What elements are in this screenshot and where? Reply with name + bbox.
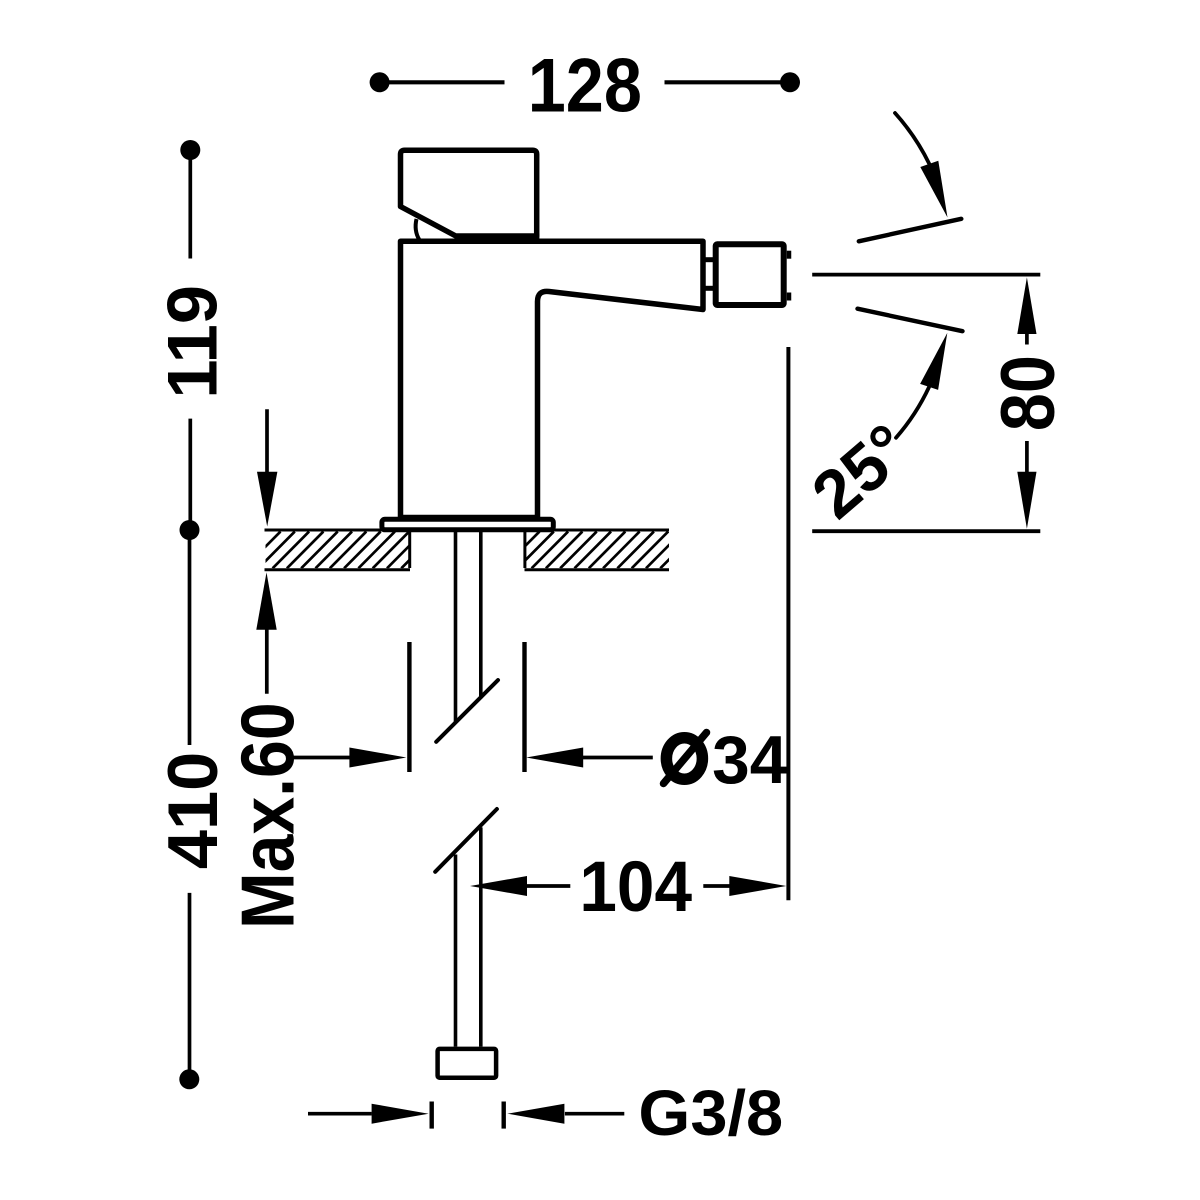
handle (401, 150, 537, 236)
aerator connector tab bottom (702, 286, 715, 291)
svg-text:119: 119 (153, 285, 232, 399)
svg-text:Max.60: Max.60 (226, 702, 310, 929)
dimension Max.60 up arrow (256, 572, 276, 629)
dimension diameter 34 right arrow (526, 748, 583, 768)
dimension diameter 34 extension line right (522, 642, 526, 772)
dimension 128 line left (380, 80, 790, 84)
angle reference line lower (858, 309, 963, 332)
aerator right bump top (787, 251, 792, 259)
dimension 119 line (188, 150, 192, 530)
dimension 80 up arrow (1017, 277, 1036, 334)
dimension diameter 34 label (666, 738, 702, 780)
dimension 80 down arrow (1025, 441, 1029, 472)
dimension diameter 34 left arrow (293, 756, 351, 760)
dimension 104 left arrow (470, 876, 527, 896)
shank left line upper (454, 531, 458, 723)
dimension 410 dot bottom (179, 1069, 199, 1089)
aerator connector tab top (702, 257, 715, 262)
shank left line lower (454, 855, 458, 1047)
dimension 128 dot right (780, 72, 800, 92)
aerator (716, 244, 784, 305)
svg-text:34: 34 (712, 723, 788, 798)
countertop hatching right block (503, 532, 697, 569)
angle reference line upper (859, 219, 962, 242)
dimension G3/8 tick left (430, 1102, 434, 1129)
dimension 410 line (188, 530, 192, 1079)
countertop top line (265, 529, 670, 532)
countertop bottom line left (265, 568, 411, 571)
countertop hole edge left (408, 530, 411, 568)
dimension 80 reference line bottom (812, 529, 1040, 533)
dimension G3/8 left arrow (308, 1112, 372, 1116)
shank right line upper (479, 531, 483, 699)
dimension 119 dot top (180, 140, 200, 160)
dimension 119 dot bottom (180, 520, 200, 540)
dimension 104 extension line (786, 347, 790, 900)
handle base bar (456, 234, 540, 241)
dimension 80 reference line top (812, 273, 1040, 277)
svg-text:104: 104 (579, 846, 692, 926)
countertop hatching left block (244, 532, 438, 569)
handle pivot arc (416, 219, 420, 240)
dimension Max.60 down arrow (265, 409, 269, 474)
countertop bottom line right (525, 568, 670, 571)
faucet body outline (401, 241, 704, 517)
shank break line lower (435, 809, 497, 872)
aerator right bump bottom (787, 293, 792, 301)
svg-text:80: 80 (987, 355, 1071, 431)
countertop hole edge right (523, 530, 526, 568)
shank break line upper (436, 680, 498, 742)
countertop surface line over plate (265, 529, 670, 532)
shank right line lower (479, 827, 483, 1046)
angle arc lower (896, 387, 929, 438)
dimension G3/8 tick right (502, 1102, 506, 1129)
svg-text:G3/8: G3/8 (638, 1078, 783, 1149)
svg-text:410: 410 (153, 752, 232, 869)
dimension 104 right arrow (703, 884, 729, 888)
dimension G3/8 right arrow (507, 1104, 564, 1124)
base plate (382, 519, 553, 530)
dimension 128 dot left (370, 72, 390, 92)
connection nut (438, 1049, 497, 1078)
svg-text:128: 128 (528, 44, 642, 128)
dimension diameter 34 extension line left (407, 642, 411, 772)
angle arc upper (895, 113, 929, 164)
